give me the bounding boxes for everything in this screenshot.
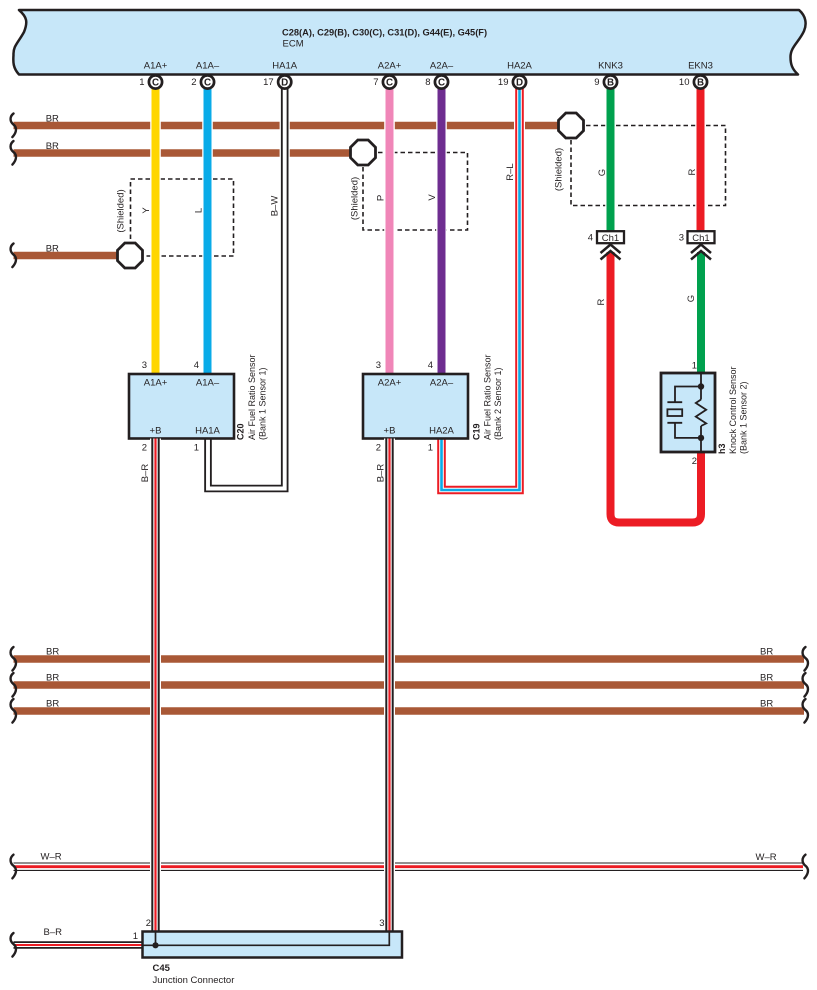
svg-text:4: 4: [588, 233, 593, 244]
svg-text:2: 2: [146, 918, 151, 929]
svg-text:BR: BR: [46, 114, 59, 125]
svg-text:Ch1: Ch1: [602, 233, 619, 244]
svg-text:h3: h3: [717, 443, 727, 454]
svg-text:BR: BR: [46, 244, 59, 255]
svg-text:(Bank 2 Sensor 1): (Bank 2 Sensor 1): [493, 367, 503, 440]
svg-text:Knock Control Sensor: Knock Control Sensor: [728, 366, 738, 454]
svg-text:B–R: B–R: [44, 927, 63, 938]
break symbol BR bottom1 right: [803, 647, 808, 671]
svg-text:BR: BR: [46, 673, 59, 684]
svg-text:2: 2: [692, 456, 697, 467]
svg-text:HA1A: HA1A: [272, 61, 297, 72]
wire G (to knock sensor pin 1): [697, 252, 705, 373]
junction connector C45 box: [143, 932, 403, 958]
chevron arrow (right Ch1): [691, 245, 711, 260]
C45 internal bus wire: [143, 932, 390, 946]
connector Ch1 (pin 3): [688, 231, 715, 243]
ECM pin 9 B (KNK3): [594, 61, 623, 89]
break symbol BR bottom2 left: [11, 673, 16, 697]
wire L (A1A-): [202, 87, 213, 375]
break symbol BR top2: [11, 141, 16, 165]
svg-text:A1A+: A1A+: [144, 378, 168, 389]
shield dashed box (A1A shield): [131, 179, 234, 256]
svg-text:1: 1: [428, 443, 433, 454]
svg-text:2: 2: [191, 77, 196, 88]
svg-text:W–R: W–R: [756, 852, 777, 863]
shield octagon (KNK3/EKN3): [559, 113, 584, 138]
svg-text:Junction Connector: Junction Connector: [153, 975, 235, 986]
svg-text:A2A–: A2A–: [430, 378, 454, 389]
resistor (knock sensor): [696, 400, 706, 427]
ECM pin 7 C (A2A+): [373, 61, 401, 89]
svg-text:(Shielded): (Shielded): [116, 189, 127, 232]
svg-text:C: C: [204, 77, 211, 88]
ECM pin 19 D (HA2A): [498, 61, 533, 89]
break symbol B-R left: [11, 933, 16, 957]
svg-text:C45: C45: [153, 963, 171, 974]
svg-text:8: 8: [425, 77, 430, 88]
ECM connector box C28(A) C29(B) C30(C) C31(D) G44(E) G45(F): [13, 10, 805, 75]
svg-text:3: 3: [142, 360, 147, 371]
svg-text:C19: C19: [472, 423, 482, 440]
svg-text:P: P: [376, 195, 387, 201]
svg-text:BR: BR: [46, 699, 59, 710]
svg-text:C: C: [438, 77, 445, 88]
wire P (A2A+): [384, 87, 395, 375]
wire BR bottom 1: [14, 655, 805, 662]
wire R-L (HA2A loop): [442, 87, 520, 490]
wire BR top 2: [14, 149, 355, 156]
svg-text:A2A–: A2A–: [430, 61, 454, 72]
break symbol BR top3: [11, 244, 16, 268]
svg-text:A1A+: A1A+: [144, 61, 168, 72]
svg-text:+B: +B: [150, 425, 162, 436]
svg-text:1: 1: [139, 77, 144, 88]
shield octagon (A1A): [118, 243, 143, 268]
svg-text:B–R: B–R: [376, 464, 387, 483]
svg-text:B–W: B–W: [270, 196, 281, 217]
svg-text:R–L: R–L: [505, 163, 516, 180]
AF sensor C20 box: [129, 374, 234, 439]
knock control sensor h3 box: [661, 373, 715, 452]
svg-text:A2A+: A2A+: [378, 378, 402, 389]
svg-text:BR: BR: [760, 647, 773, 658]
junction dot (knock pin2 node): [698, 435, 704, 441]
wire B-R vertical (C20 +B to C45 pin 2): [150, 439, 161, 932]
svg-text:7: 7: [373, 77, 378, 88]
svg-text:BR: BR: [760, 699, 773, 710]
svg-text:B: B: [697, 77, 704, 88]
svg-text:A1A–: A1A–: [196, 61, 220, 72]
svg-text:(Bank 1 Sensor 2): (Bank 1 Sensor 2): [739, 381, 749, 454]
wire BR bottom 2: [14, 681, 805, 688]
svg-text:4: 4: [194, 360, 199, 371]
svg-text:D: D: [281, 77, 288, 88]
svg-text:R: R: [596, 298, 607, 305]
svg-text:L: L: [194, 208, 205, 213]
svg-text:A2A+: A2A+: [378, 61, 402, 72]
svg-text:9: 9: [594, 77, 599, 88]
wire B-W (HA1A loop): [208, 87, 285, 489]
wire R loop (knock sensor return): [611, 252, 702, 523]
svg-text:3: 3: [679, 233, 684, 244]
svg-text:C: C: [152, 77, 159, 88]
svg-text:(Shielded): (Shielded): [350, 177, 361, 220]
svg-text:Air Fuel Ratio Sensor: Air Fuel Ratio Sensor: [483, 354, 493, 440]
wire G (KNK3): [605, 87, 616, 231]
svg-text:10: 10: [679, 77, 690, 88]
wire BR bottom 3: [14, 707, 805, 714]
svg-text:1: 1: [133, 931, 138, 942]
svg-text:4: 4: [428, 360, 433, 371]
AF sensor C19 box: [363, 374, 468, 439]
svg-text:R: R: [687, 168, 698, 175]
svg-text:Air Fuel Ratio Sensor: Air Fuel Ratio Sensor: [247, 354, 257, 440]
svg-text:ECM: ECM: [283, 39, 304, 50]
svg-text:G: G: [686, 295, 697, 302]
break symbol BR bottom1 left: [11, 647, 16, 671]
ECM pin 17 D (HA1A): [263, 61, 298, 89]
break symbol BR bottom3 right: [803, 699, 808, 723]
shield dashed box (A2A shield): [363, 153, 468, 231]
svg-text:HA2A: HA2A: [507, 61, 532, 72]
svg-text:KNK3: KNK3: [598, 61, 623, 72]
svg-text:C28(A), C29(B), C30(C), C31(D): C28(A), C29(B), C30(C), C31(D), G44(E), …: [282, 28, 487, 38]
svg-text:(Bank 1 Sensor 1): (Bank 1 Sensor 1): [258, 367, 268, 440]
shield octagon (A2A): [351, 140, 376, 165]
svg-text:EKN3: EKN3: [688, 61, 713, 72]
svg-text:2: 2: [376, 443, 381, 454]
wire V (A2A-): [436, 87, 447, 375]
svg-text:2: 2: [142, 443, 147, 454]
C45 junction dot: [152, 942, 158, 948]
wire BR top 3: [14, 252, 123, 259]
svg-text:BR: BR: [46, 141, 59, 152]
svg-text:BR: BR: [760, 673, 773, 684]
svg-text:D: D: [516, 77, 523, 88]
break symbol W-R left: [11, 855, 16, 879]
svg-text:C20: C20: [236, 423, 246, 440]
ECM pin 10 B (EKN3): [679, 61, 713, 89]
break symbol W-R right: [803, 855, 808, 879]
connector Ch1 (pin 4): [597, 231, 624, 243]
svg-text:3: 3: [379, 918, 384, 929]
wire Y (A1A+): [150, 87, 161, 375]
wire W-R horizontal: [14, 862, 804, 871]
piezo element branch (knock sensor): [667, 387, 701, 438]
ECM pin 8 C (A2A-): [425, 61, 454, 89]
ECM pin 2 C (A1A-): [191, 61, 220, 89]
wire B-R horizontal to C45: [14, 941, 143, 949]
break symbol BR bottom3 left: [11, 699, 16, 723]
svg-text:17: 17: [263, 77, 274, 88]
svg-text:(Shielded): (Shielded): [554, 148, 565, 191]
svg-text:BR: BR: [46, 647, 59, 658]
shield dashed box (KNK3/EKN3 shield): [571, 126, 726, 206]
wire B-R vertical (C19 +B to C45 pin 3): [384, 439, 395, 932]
svg-text:1: 1: [194, 443, 199, 454]
svg-text:V: V: [427, 194, 438, 201]
svg-text:A1A–: A1A–: [196, 378, 220, 389]
svg-text:Y: Y: [141, 207, 152, 214]
svg-text:HA1A: HA1A: [195, 425, 220, 436]
svg-text:HA2A: HA2A: [429, 425, 454, 436]
knock sensor internal wire: [700, 373, 702, 452]
break symbol BR top1: [11, 114, 16, 138]
svg-text:B: B: [607, 77, 614, 88]
chevron arrow (left Ch1): [601, 245, 621, 260]
junction dot (knock pin1 node): [698, 383, 704, 389]
svg-text:1: 1: [692, 361, 697, 372]
svg-text:G: G: [597, 169, 608, 176]
svg-text:W–R: W–R: [41, 852, 62, 863]
wire BR top 1: [14, 122, 563, 129]
break symbol BR bottom2 right: [803, 673, 808, 697]
svg-text:+B: +B: [384, 425, 396, 436]
svg-text:Ch1: Ch1: [692, 233, 709, 244]
svg-text:B–R: B–R: [140, 464, 151, 483]
ECM pin 1 C (A1A+): [139, 61, 167, 89]
svg-text:19: 19: [498, 77, 509, 88]
wire R (EKN3): [695, 87, 706, 231]
svg-text:C: C: [386, 77, 393, 88]
piezo crystal rectangle: [667, 409, 682, 416]
svg-text:3: 3: [376, 360, 381, 371]
